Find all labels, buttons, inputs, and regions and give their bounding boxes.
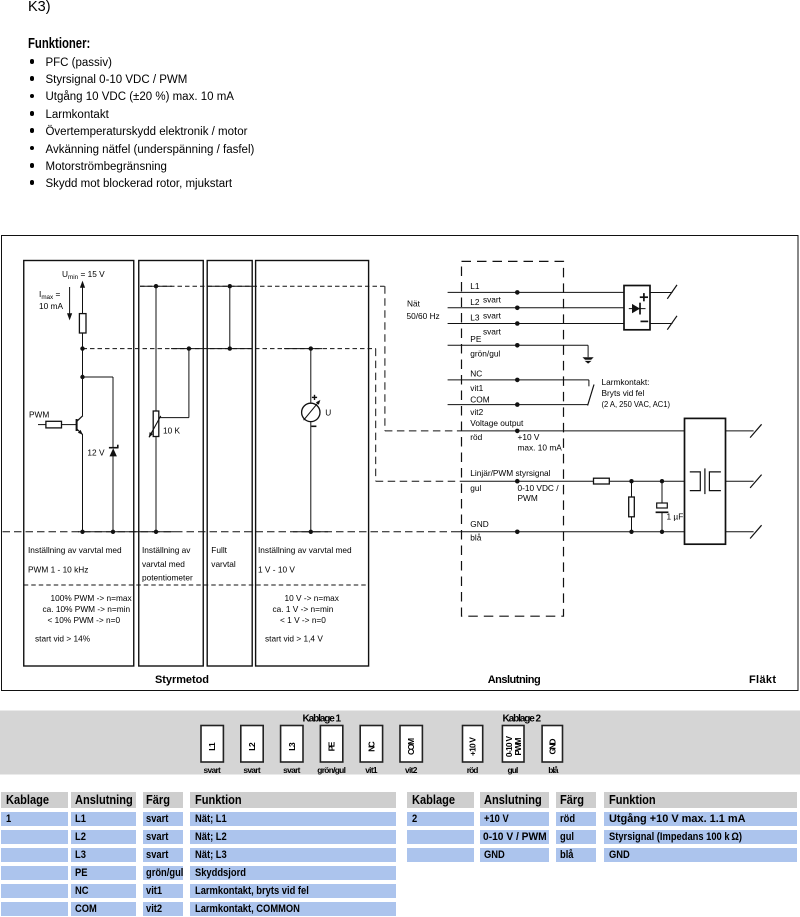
svg-text:Larmkontakt:: Larmkontakt: (602, 377, 650, 387)
svg-text:varvtal med: varvtal med (142, 559, 185, 569)
svg-text:L2: L2 (470, 297, 480, 307)
svg-text:GND: GND (470, 519, 488, 529)
svg-text:Inställning av varvtal med: Inställning av varvtal med (258, 545, 352, 555)
svg-text:10 K: 10 K (163, 426, 181, 436)
svg-text:1 µF: 1 µF (667, 512, 684, 522)
svg-text:GND: GND (547, 739, 557, 755)
svg-text:ca. 1 V -> n=min: ca. 1 V -> n=min (273, 604, 334, 614)
svg-text:50/60 Hz: 50/60 Hz (407, 311, 440, 321)
svg-text:Nät: Nät (407, 298, 421, 308)
svg-text:Inställning av varvtal med: Inställning av varvtal med (28, 545, 122, 555)
svg-text:Linjär/PWM styrsignal: Linjär/PWM styrsignal (470, 468, 550, 478)
svg-text:svart: svart (483, 310, 502, 320)
svg-text:vit2: vit2 (405, 765, 418, 775)
svg-text:NC: NC (366, 741, 376, 751)
svg-text:gul: gul (470, 483, 481, 493)
svg-text:Fläkt: Fläkt (749, 674, 776, 686)
svg-text:Umin = 15 V: Umin = 15 V (62, 269, 105, 281)
svg-text:PWM: PWM (513, 737, 523, 755)
svg-text:Fullt: Fullt (211, 545, 227, 555)
svg-text:blå: blå (470, 533, 481, 543)
svg-text:100% PWM -> n=max: 100% PWM -> n=max (51, 593, 133, 603)
svg-text:L3: L3 (287, 742, 297, 751)
svg-text:COM: COM (470, 394, 489, 404)
svg-text:10 V -> n=max: 10 V -> n=max (285, 593, 340, 603)
svg-text:Inställning av: Inställning av (142, 545, 191, 555)
svg-text:L1: L1 (470, 281, 480, 291)
svg-text:svart: svart (204, 765, 222, 775)
svg-text:Kablage 2: Kablage 2 (503, 714, 542, 725)
svg-text:svart: svart (483, 326, 502, 336)
svg-text:PE: PE (327, 741, 337, 751)
svg-text:(2 A, 250 VAC, AC1): (2 A, 250 VAC, AC1) (602, 399, 671, 409)
svg-text:grön/gul: grön/gul (317, 765, 346, 775)
svg-text:ca. 10% PWM -> n=min: ca. 10% PWM -> n=min (43, 604, 131, 614)
svg-text:vit1: vit1 (470, 383, 483, 393)
svg-text:svart: svart (283, 765, 301, 775)
svg-text:potentiometer: potentiometer (142, 573, 193, 583)
svg-text:10 mA: 10 mA (39, 301, 63, 311)
svg-text:1 V - 10 V: 1 V - 10 V (258, 565, 295, 575)
svg-text:PWM: PWM (29, 410, 49, 420)
svg-text:+10 V: +10 V (468, 737, 478, 756)
svg-text:blå: blå (548, 765, 559, 775)
svg-text:vit2: vit2 (470, 407, 483, 417)
svg-text:Imax =: Imax = (39, 289, 61, 301)
svg-text:PWM 1 - 10 kHz: PWM 1 - 10 kHz (28, 565, 88, 575)
svg-text:start vid > 1,4 V: start vid > 1,4 V (265, 633, 323, 643)
svg-text:varvtal: varvtal (211, 559, 236, 569)
svg-text:svart: svart (243, 765, 261, 775)
svg-text:< 10% PWM -> n=0: < 10% PWM -> n=0 (48, 615, 121, 625)
svg-text:grön/gul: grön/gul (470, 349, 500, 359)
svg-text:12 V: 12 V (87, 448, 105, 458)
svg-text:start vid > 14%: start vid > 14% (35, 633, 91, 643)
svg-text:COM: COM (406, 738, 416, 755)
svg-text:svart: svart (483, 294, 502, 304)
svg-text:L2: L2 (247, 742, 257, 751)
svg-text:Styrmetod: Styrmetod (155, 674, 209, 686)
svg-text:NC: NC (470, 368, 482, 378)
svg-text:0-10 VDC /: 0-10 VDC / (518, 483, 560, 493)
svg-text:L3: L3 (470, 313, 480, 323)
svg-text:vit1: vit1 (365, 765, 378, 775)
svg-text:< 1 V -> n=0: < 1 V -> n=0 (280, 615, 326, 625)
svg-text:U: U (325, 408, 331, 418)
svg-text:Voltage output: Voltage output (470, 418, 524, 428)
svg-text:PWM: PWM (518, 493, 538, 503)
svg-text:röd: röd (467, 765, 479, 775)
svg-text:röd: röd (470, 432, 482, 442)
svg-text:+10 V: +10 V (518, 432, 540, 442)
svg-text:gul: gul (508, 765, 519, 775)
svg-text:Anslutning: Anslutning (488, 674, 541, 686)
svg-text:L1: L1 (207, 742, 217, 751)
svg-text:PE: PE (470, 334, 482, 344)
svg-text:Bryts vid fel: Bryts vid fel (602, 388, 645, 398)
svg-text:max. 10 mA: max. 10 mA (518, 442, 563, 452)
svg-text:Kablage 1: Kablage 1 (303, 714, 342, 725)
